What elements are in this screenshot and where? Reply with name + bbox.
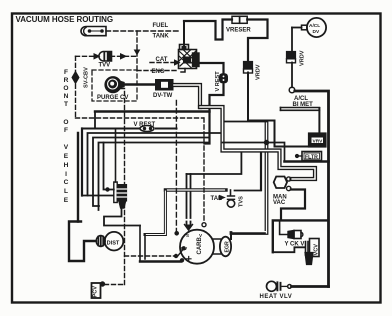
svg-text:ENG: ENG [152, 69, 165, 75]
svg-text:VRESER: VRESER [226, 28, 251, 34]
svg-text:E: E [64, 197, 69, 204]
svg-text:S: S [186, 233, 189, 238]
svg-text:O: O [63, 119, 68, 126]
svg-text:VRDV: VRDV [256, 64, 262, 80]
svg-text:CARB: CARB [197, 237, 203, 255]
svg-text:I: I [65, 171, 67, 178]
svg-text:BI MET: BI MET [293, 102, 314, 108]
svg-text:O: O [63, 85, 68, 92]
svg-text:DV-TW: DV-TW [153, 93, 173, 99]
svg-text:FLTR: FLTR [305, 155, 318, 161]
svg-text:PURGE CV: PURGE CV [97, 95, 128, 101]
svg-text:HEAT VLV: HEAT VLV [260, 294, 293, 300]
svg-text:F: F [64, 127, 68, 134]
svg-text:TVS: TVS [239, 196, 245, 207]
svg-text:C: C [64, 179, 69, 186]
svg-text:T: T [64, 101, 68, 108]
svg-text:VACUUM HOSE ROUTING: VACUUM HOSE ROUTING [16, 15, 114, 24]
svg-text:VAC: VAC [273, 200, 286, 206]
svg-text:V: V [64, 144, 69, 151]
svg-text:PV: PV [181, 246, 188, 251]
svg-text:A/CL: A/CL [309, 23, 320, 29]
svg-text:N: N [64, 93, 69, 100]
svg-text:EGR: EGR [225, 241, 231, 252]
svg-text:VCV: VCV [314, 244, 320, 256]
svg-text:VRV: VRV [313, 138, 324, 144]
svg-text:H: H [64, 162, 69, 169]
svg-text:E: E [64, 153, 69, 160]
svg-text:L: L [64, 188, 68, 195]
svg-text:TVV: TVV [99, 63, 111, 69]
svg-text:R: R [64, 77, 69, 84]
svg-text:SV-CBV: SV-CBV [84, 67, 90, 88]
svg-text:DV: DV [313, 29, 320, 35]
svg-text:Y CK V: Y CK V [285, 242, 305, 248]
svg-text:V REST: V REST [134, 122, 156, 128]
svg-text:V REST: V REST [215, 71, 221, 92]
svg-text:F: F [64, 69, 68, 76]
svg-text:VRDV: VRDV [300, 50, 306, 66]
svg-text:FUEL: FUEL [153, 23, 169, 29]
svg-text:DIST: DIST [107, 241, 120, 247]
svg-text:PCV: PCV [93, 286, 99, 298]
svg-text:TAB: TAB [211, 196, 224, 202]
svg-text:CAT: CAT [156, 57, 168, 63]
svg-text:TANK: TANK [153, 34, 170, 40]
